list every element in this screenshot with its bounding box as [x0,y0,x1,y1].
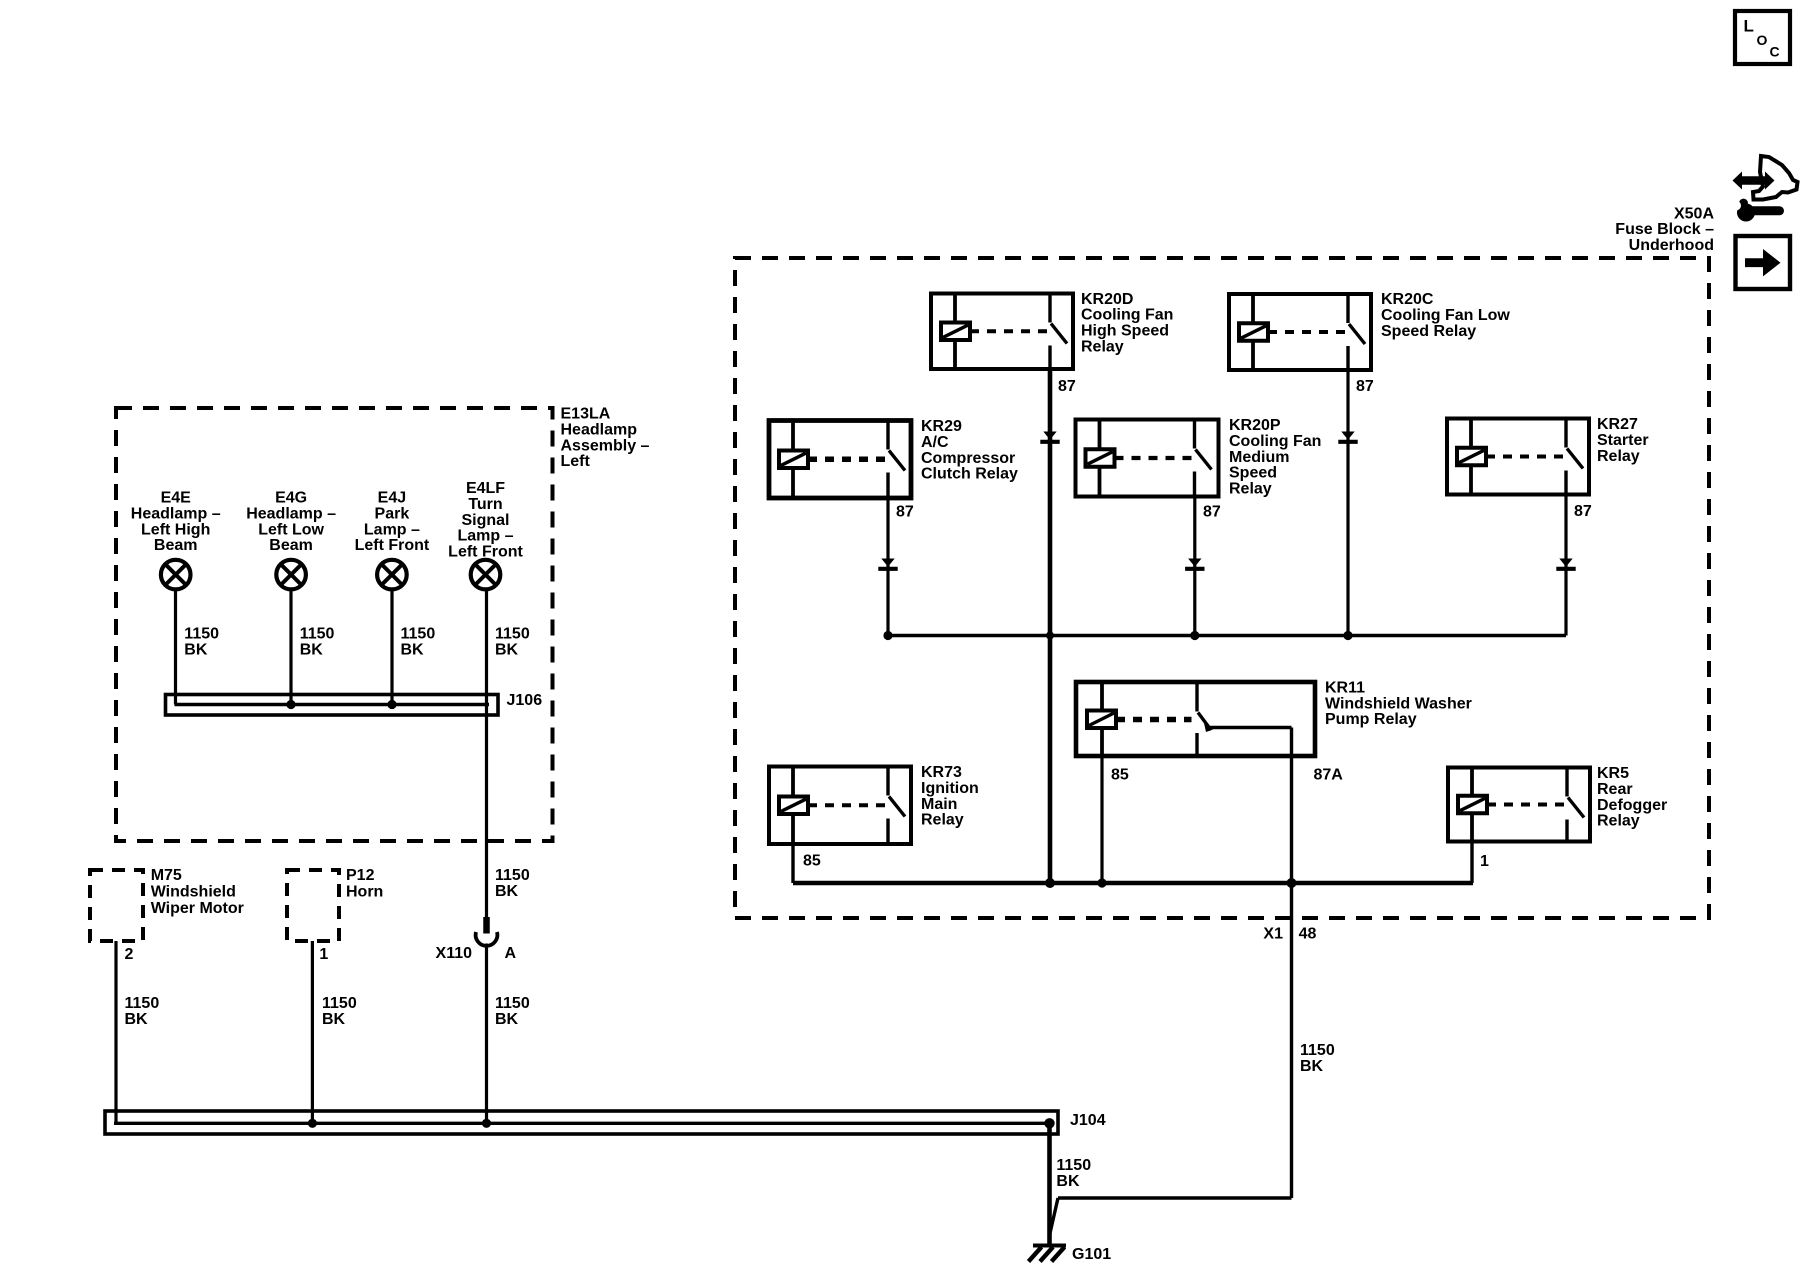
relay KR20P contact dashed line [1115,456,1192,460]
inline connector on KR20C wire [1341,432,1354,440]
svg-text:KR27: KR27 [1597,416,1638,433]
svg-text:1150: 1150 [125,995,160,1012]
svg-text:High Speed: High Speed [1081,323,1169,340]
relay KR29 switch [886,421,889,450]
relay KR20D contact dashed line [970,329,1047,333]
svg-text:Relay: Relay [1597,448,1640,465]
svg-text:87: 87 [1356,378,1374,395]
svg-text:E4J: E4J [378,490,406,507]
svg-text:85: 85 [803,853,821,870]
svg-text:87: 87 [1058,378,1076,395]
junction dot E4G-J106 [286,700,295,709]
headlamp assembly E13LA dashed boundary [116,408,553,841]
relay KR20D coil [941,323,970,341]
relay KR29 box [769,421,911,499]
svg-text:Clutch Relay: Clutch Relay [921,466,1018,483]
relay KR5 coil [1458,796,1487,814]
svg-text:Cooling Fan: Cooling Fan [1229,433,1321,450]
connector X110 terminal A [483,917,490,934]
svg-text:J104: J104 [1070,1112,1106,1129]
svg-text:KR5: KR5 [1597,765,1629,782]
wire E4LF to J106 [485,590,488,705]
svg-text:1150: 1150 [401,626,436,643]
lamp E4LF symbol [471,560,501,590]
relay KR20C contact dashed line [1268,330,1345,334]
wire J106 to X110 (1150 BK) [485,705,488,918]
svg-text:G101: G101 [1072,1246,1111,1263]
svg-text:Underhood: Underhood [1629,237,1714,254]
svg-text:Headlamp –: Headlamp – [131,505,221,522]
svg-text:Left High: Left High [141,521,210,538]
relay KR11 coil [1087,711,1116,729]
svg-text:Assembly –: Assembly – [561,437,650,454]
svg-text:BK: BK [125,1011,149,1028]
svg-text:Medium: Medium [1229,449,1289,466]
svg-text:Left: Left [561,453,591,470]
svg-text:KR11: KR11 [1325,679,1365,696]
svg-text:BK: BK [322,1011,346,1028]
svg-text:1150: 1150 [495,995,530,1012]
next-page arrow icon box [1736,236,1791,289]
lamp E4J symbol [377,560,407,590]
wire X110 to J104 (1150 BK) [485,944,488,1124]
lamp E4E symbol [161,560,191,590]
relay KR27 contact dashed line [1486,455,1563,459]
wire P12 pin 1 to J104 [311,941,314,1123]
svg-text:Relay: Relay [921,812,964,829]
svg-text:E4LF: E4LF [466,480,505,497]
svg-text:KR73: KR73 [921,764,962,781]
junction dot E4J-J106 [387,700,396,709]
wire X1-48 to ground (horizontal) [1058,1196,1292,1199]
svg-text:Cooling Fan: Cooling Fan [1081,307,1173,324]
junction dot X110-J104 [482,1119,491,1128]
relay KR11 box [1076,682,1315,756]
wire E4J to J106 [390,590,393,705]
relay KR73 box [769,767,911,845]
relay KR5 switch [1565,768,1568,797]
svg-text:A/C: A/C [921,434,949,451]
windshield wiper motor M75 dashed box [90,870,143,941]
svg-text:X110: X110 [436,945,473,962]
svg-text:O: O [1757,32,1768,48]
svg-text:Headlamp –: Headlamp – [246,505,336,522]
svg-text:E4G: E4G [275,490,307,507]
junction dot ground-J104 [1044,1118,1054,1128]
svg-text:KR29: KR29 [921,418,962,435]
relay KR11 switch to 87A link [1209,726,1292,729]
junction dot KR20D wire-ground bus [1045,878,1055,888]
relay KR29 coil pin line [791,421,795,499]
svg-text:P12: P12 [346,867,375,884]
wire KR27 87 to relay bus [1564,495,1567,636]
inline connector on KR20P wire [1188,559,1201,567]
wire E4G to J106 [289,590,292,705]
svg-text:BK: BK [495,641,519,658]
svg-text:87A: 87A [1314,766,1344,783]
svg-text:X50A: X50A [1674,205,1714,222]
svg-text:1150: 1150 [300,626,335,643]
svg-text:X1: X1 [1263,925,1283,942]
svg-text:Horn: Horn [346,884,383,901]
svg-text:87: 87 [1203,504,1221,521]
svg-text:KR20C: KR20C [1381,291,1434,308]
relay KR27 switch [1564,419,1567,448]
wire KR11 87A through X1 pin 48 (1150 BK) [1290,728,1293,1199]
relay KR27 box [1447,419,1589,495]
svg-text:Lamp –: Lamp – [457,528,513,545]
svg-text:1150: 1150 [495,626,530,643]
junction dot P12-J104 [308,1119,317,1128]
relay KR73 coil pin line [791,767,795,845]
wire KR5 1 to ground bus [1470,842,1473,884]
relay KR11 switch [1195,682,1198,712]
svg-text:1150: 1150 [322,995,357,1012]
svg-text:Compressor: Compressor [921,450,1015,467]
svg-text:C: C [1770,44,1780,60]
svg-text:Signal: Signal [461,512,509,529]
relay KR20P box [1076,420,1219,497]
relay KR20P coil [1086,449,1115,467]
svg-text:85: 85 [1111,766,1129,783]
relay KR20D switch [1048,294,1051,323]
svg-text:BK: BK [184,641,208,658]
relay KR5 coil pin line [1470,768,1474,842]
svg-text:Relay: Relay [1081,339,1124,356]
wire E4E to J106 [174,590,177,705]
svg-text:2: 2 [125,946,134,963]
inline connector on KR29 wire [881,559,894,567]
junction dot KR20P-bus [1190,631,1199,640]
svg-text:1: 1 [1480,853,1489,870]
relay KR29 contact dashed line [808,457,885,462]
svg-text:KR20P: KR20P [1229,417,1281,434]
svg-text:48: 48 [1299,926,1317,943]
relay 87 outputs bus wire [888,634,1566,637]
fuse block X50A dashed boundary [735,258,1709,918]
splice pack J104 [105,1111,1058,1134]
svg-text:Left Front: Left Front [355,537,430,554]
wire KR29 87 to relay bus [886,498,889,636]
svg-text:Relay: Relay [1597,813,1640,830]
svg-text:Relay: Relay [1229,481,1272,498]
wire M75 pin 2 to J104 [114,941,117,1123]
ground symbol G101 [1033,1244,1066,1248]
relay KR20C box [1229,294,1371,370]
svg-text:Park: Park [375,505,410,522]
svg-text:Windshield: Windshield [151,884,236,901]
junction dot KR29-bus [883,631,892,640]
relay KR27 coil pin line [1469,419,1473,495]
relay KR20C coil [1239,323,1268,341]
wire KR11 85 to ground bus [1100,756,1103,883]
relay KR20C coil pin line [1251,294,1255,370]
svg-text:Headlamp: Headlamp [561,421,638,438]
junction dot KR11 85-ground bus [1097,878,1106,887]
inline connector on KR27 wire [1559,559,1572,567]
svg-text:A: A [505,945,517,962]
inline connector on KR20D wire [1043,432,1056,440]
svg-text:Windshield Washer: Windshield Washer [1325,695,1472,712]
relay KR20D box [931,294,1073,370]
svg-text:87: 87 [1574,503,1592,520]
junction dot KR20D wire-bus [1046,632,1054,640]
wire KR20D 87 to ground bus (1150 BK, bold) [1048,369,1053,883]
lamp E4G symbol [276,560,306,590]
relay KR5 box [1448,768,1590,842]
svg-text:L: L [1744,17,1754,36]
svg-text:Beam: Beam [154,537,198,554]
junction dot KR20C-bus [1343,631,1352,640]
svg-text:1150: 1150 [184,626,219,643]
svg-text:Fuse Block –: Fuse Block – [1615,221,1714,238]
svg-text:BK: BK [401,641,425,658]
svg-text:Cooling Fan Low: Cooling Fan Low [1381,307,1510,324]
svg-text:E4E: E4E [161,490,192,507]
relay KR29 coil [779,451,808,469]
svg-text:Speed: Speed [1229,465,1277,482]
svg-text:1150: 1150 [1300,1042,1335,1059]
svg-text:Left Low: Left Low [258,521,324,538]
relay KR73 switch [886,767,889,796]
junction dot 87A-ground bus [1287,878,1297,888]
wire KR73 85 to ground bus [791,844,794,883]
svg-text:Starter: Starter [1597,432,1649,449]
svg-text:E13LA: E13LA [561,406,611,423]
LOC hyperlink icon box [1735,11,1790,64]
relay KR73 coil [779,797,808,815]
svg-text:Defogger: Defogger [1597,797,1667,814]
ground bus wire (bold) [793,881,1473,886]
svg-text:1: 1 [319,946,328,963]
svg-text:Ignition: Ignition [921,780,979,797]
svg-text:BK: BK [1300,1058,1324,1075]
wire J104 to G101 (1150 BK, bold) [1047,1123,1052,1245]
wire jog to ground stem [1050,1198,1058,1234]
svg-text:1150: 1150 [495,867,530,884]
relay KR5 contact dashed line [1487,803,1564,807]
svg-text:Pump Relay: Pump Relay [1325,711,1417,728]
relay KR20D coil pin line [953,294,957,370]
relay KR11 coil pin line [1100,682,1104,756]
svg-text:KR20D: KR20D [1081,291,1133,308]
splice pack J106 [166,695,499,716]
svg-text:1150: 1150 [1056,1157,1091,1174]
svg-text:Wiper Motor: Wiper Motor [151,900,244,917]
wire KR20P 87 to relay bus [1193,497,1196,636]
relay KR20P switch [1193,420,1196,449]
svg-text:BK: BK [495,883,519,900]
relay KR20C switch [1346,294,1349,323]
svg-text:Rear: Rear [1597,781,1633,798]
svg-text:Main: Main [921,796,957,813]
relay KR73 contact dashed line [808,803,885,807]
svg-text:Turn: Turn [468,496,502,513]
svg-text:J106: J106 [507,692,543,709]
horn P12 dashed box [287,870,339,941]
relay KR27 coil [1457,448,1486,466]
relay KR11 contact dashed line [1116,717,1192,722]
svg-text:M75: M75 [151,867,182,884]
svg-text:Lamp –: Lamp – [364,521,420,538]
relay KR20P coil pin line [1098,420,1102,497]
svg-text:Beam: Beam [269,537,313,554]
wire KR20C 87 to relay bus [1346,370,1349,636]
svg-text:BK: BK [1056,1173,1080,1190]
svg-text:87: 87 [896,504,914,521]
svg-text:BK: BK [300,641,324,658]
svg-text:BK: BK [495,1011,519,1028]
svg-text:Speed Relay: Speed Relay [1381,323,1476,340]
forward/turn navigation icon (double arrow, outline arrow, wrench) [1753,156,1798,200]
